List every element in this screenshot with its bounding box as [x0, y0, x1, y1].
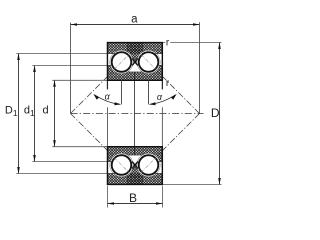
alpha left: arrowhead on contact line: [93, 94, 99, 100]
svg-text:α: α: [105, 92, 111, 102]
ball diagonal mark right: [141, 55, 156, 70]
dimension D: dimension line: [219, 43, 221, 185]
ball left: [112, 52, 132, 72]
svg-text:α: α: [157, 92, 163, 102]
dimension a: dimension line: [71, 24, 200, 26]
groove circle right: [137, 153, 160, 176]
bearing mid vertical line: [134, 73, 136, 155]
inner ring middle notch: [129, 65, 141, 72]
dimension D: bottom extension line: [162, 184, 221, 186]
inner ring hatch: [107, 147, 162, 162]
dimension d: bottom extension line: [52, 146, 107, 148]
face line right (above bottom section): [161, 107, 163, 146]
dimension a: right extension line (pressure center right): [199, 22, 201, 113]
face line left (above bottom section): [106, 107, 108, 146]
groove circle left: [110, 153, 133, 176]
dimension D1: bottom arrowhead: [17, 167, 20, 174]
dimension D1: top arrowhead: [17, 53, 20, 60]
dimension a: left arrowhead: [70, 23, 77, 26]
dimension D: top arrowhead: [218, 42, 221, 49]
dimension a: left extension line (pressure center left): [70, 23, 72, 114]
dimension B: left arrowhead: [107, 202, 114, 205]
cage marks between balls: [132, 59, 138, 66]
svg-text:B: B: [129, 191, 137, 205]
svg-text:a: a: [131, 13, 138, 25]
dimension B: right arrowhead: [156, 202, 163, 205]
dimension d: bottom arrowhead: [53, 140, 56, 147]
shoulder hairlines: [107, 155, 162, 173]
ball diagonal mark right: [141, 158, 156, 173]
dimension B: dimension line: [108, 203, 163, 205]
dimension a: right arrowhead: [193, 23, 200, 26]
contact line left row bottom (dash-dot 45deg): [71, 114, 136, 179]
ball right: [139, 155, 159, 175]
ball right: [139, 52, 159, 72]
contact line right row bottom (dash-dot 45deg): [135, 114, 200, 179]
face stub right (below top section): [161, 80, 163, 89]
dimension d1: bottom arrowhead: [33, 155, 36, 162]
inner ring middle notch: [129, 155, 141, 162]
dimension B: left extension line: [107, 186, 109, 208]
outer ring hatch: [107, 43, 162, 54]
groove circle left: [110, 50, 133, 73]
ball left: [112, 155, 132, 175]
dimension B: right extension line: [162, 186, 164, 208]
alpha left: arrowhead on radial line: [114, 102, 121, 105]
top bearing section: [107, 43, 162, 81]
dimension D1: dimension line: [18, 54, 20, 174]
dimension d1: top extension line: [32, 65, 107, 67]
cage marks between balls: [132, 162, 138, 169]
dimension D: top extension line (gap for r label): [162, 42, 165, 44]
dimension d1: top arrowhead: [33, 65, 36, 72]
dimension d: dimension line: [54, 80, 56, 146]
contact line right row top (dash-dot 45deg): [135, 49, 200, 114]
bottom bearing section (mirror of top about y=113.5): [107, 147, 162, 185]
alpha left: radial line through left ball: [121, 80, 123, 104]
svg-text:D: D: [211, 106, 220, 120]
alpha right: arrowhead on contact line: [171, 94, 177, 100]
alpha right: radial line through right ball: [148, 80, 150, 104]
ball diagonal mark left: [114, 158, 129, 173]
dimension d: top arrowhead: [53, 80, 56, 87]
shoulder hairlines: [107, 54, 162, 72]
dimension d: top extension line: [52, 79, 107, 81]
alpha left: arc: [95, 95, 121, 105]
section outline: [107, 43, 162, 81]
dimension d1: bottom extension line: [32, 161, 107, 163]
ball diagonal mark left: [114, 55, 129, 70]
dimension d1: dimension line: [34, 66, 36, 162]
dimension D: bottom arrowhead: [218, 178, 221, 185]
inner ring hatch: [107, 66, 162, 81]
alpha right: arrowhead on radial line: [149, 102, 156, 105]
axis center line (dash-dot): [71, 113, 204, 115]
outer ring hatch: [107, 174, 162, 185]
alpha right: arc: [150, 95, 176, 105]
dimension D1: bottom extension line: [16, 173, 107, 175]
dimension D1: top extension line: [16, 53, 107, 55]
contact line left row top (dash-dot 45deg): [71, 49, 136, 114]
groove circle right: [137, 50, 160, 73]
svg-text:d: d: [43, 105, 49, 117]
section outline: [107, 147, 162, 185]
face stub left (below top section): [106, 80, 108, 89]
